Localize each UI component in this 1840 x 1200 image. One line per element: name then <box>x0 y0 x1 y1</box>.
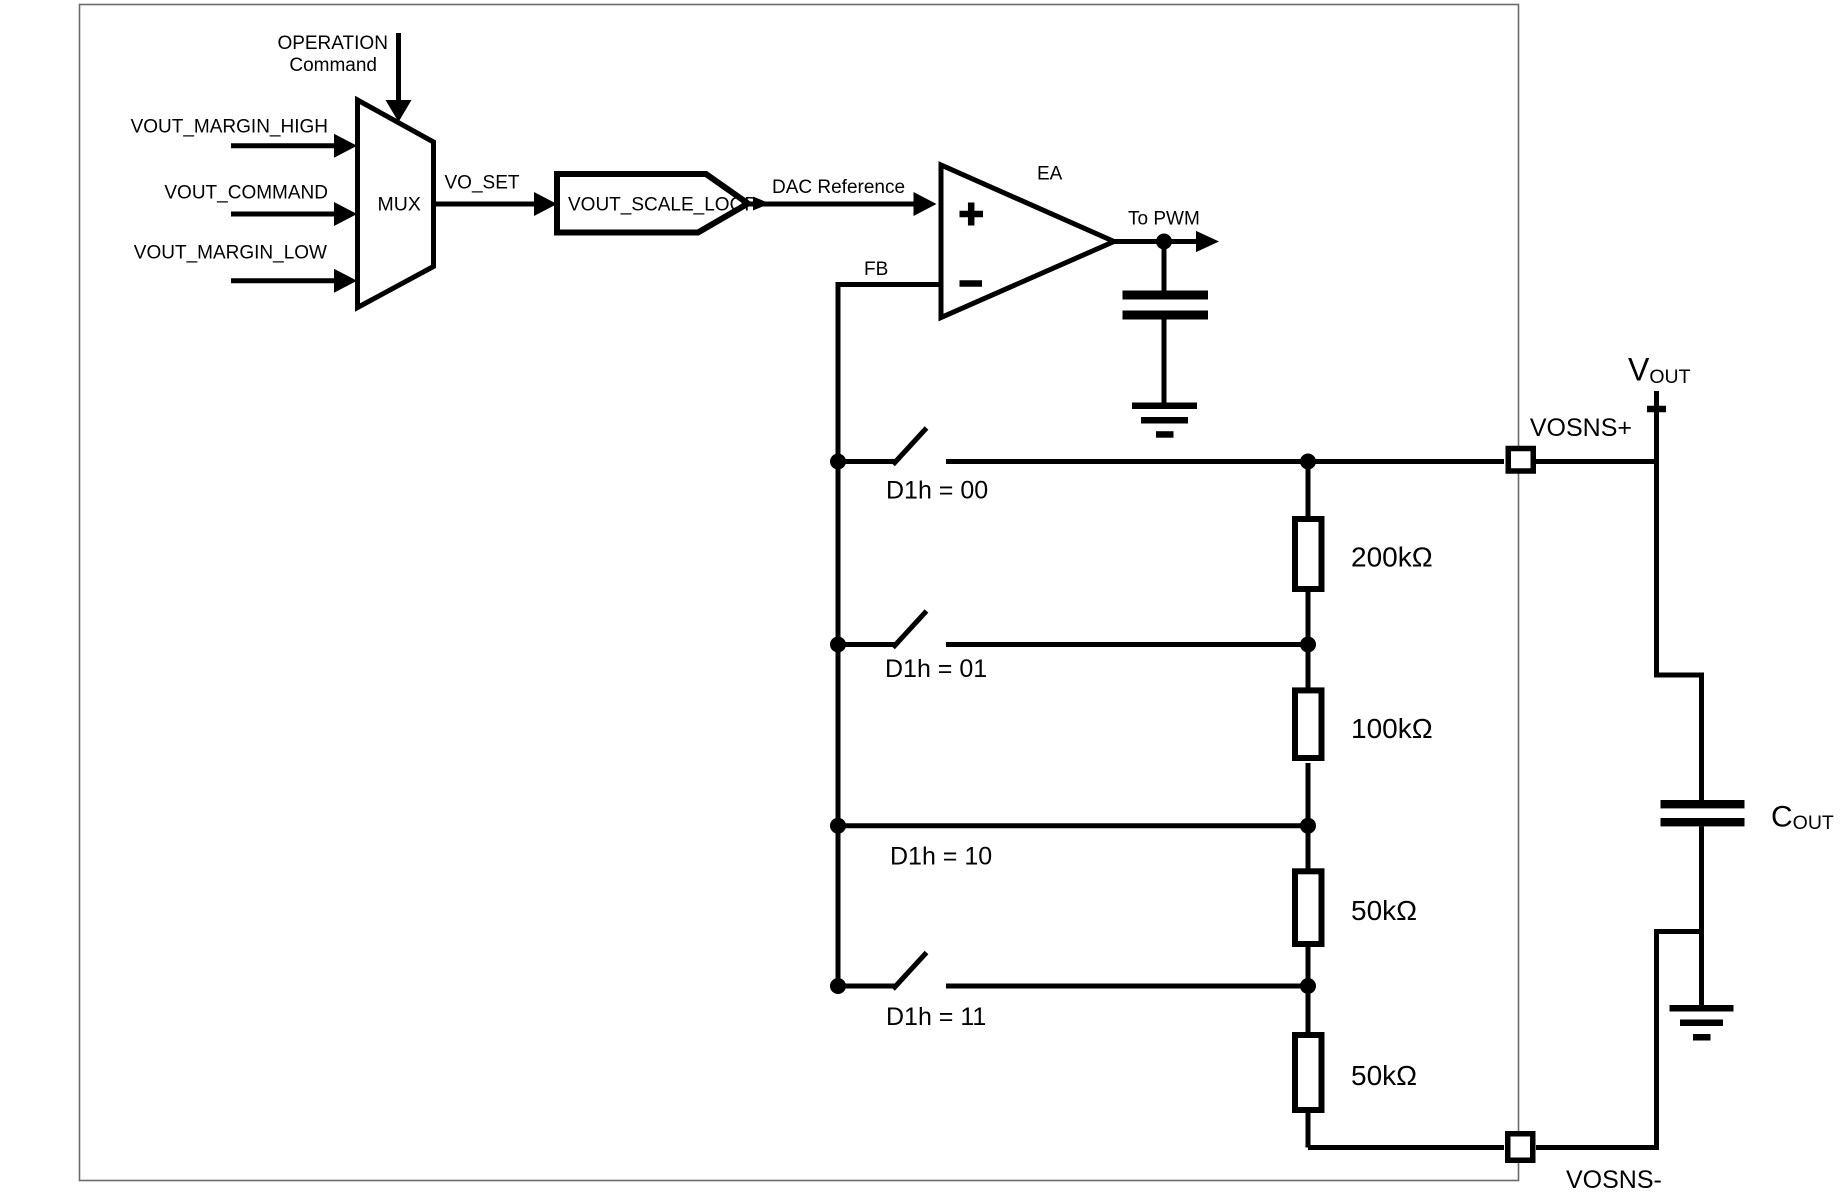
svg-text:COUT: COUT <box>1771 801 1834 835</box>
svg-text:VOSNS-: VOSNS- <box>1566 1166 1662 1194</box>
svg-text:50kΩ: 50kΩ <box>1351 895 1417 926</box>
svg-text:D1h = 11: D1h = 11 <box>886 1003 986 1031</box>
svg-text:D1h = 10: D1h = 10 <box>890 843 992 871</box>
svg-text:VOUT_SCALE_LOOP: VOUT_SCALE_LOOP <box>568 195 757 216</box>
svg-text:VOSNS+: VOSNS+ <box>1530 414 1632 442</box>
svg-text:VOUT_MARGIN_LOW: VOUT_MARGIN_LOW <box>134 242 327 263</box>
svg-text:VOUT: VOUT <box>1628 351 1691 388</box>
svg-text:VOUT_COMMAND: VOUT_COMMAND <box>164 183 328 204</box>
svg-text:FB: FB <box>864 259 888 280</box>
svg-text:100kΩ: 100kΩ <box>1351 713 1433 744</box>
svg-text:200kΩ: 200kΩ <box>1351 542 1433 573</box>
svg-text:Command: Command <box>289 55 377 76</box>
svg-text:DAC Reference: DAC Reference <box>772 177 905 198</box>
svg-text:VO_SET: VO_SET <box>445 173 520 194</box>
svg-text:VOUT_MARGIN_HIGH: VOUT_MARGIN_HIGH <box>131 116 328 137</box>
svg-text:OPERATION: OPERATION <box>277 33 388 54</box>
svg-text:EA: EA <box>1037 164 1063 185</box>
svg-text:D1h = 01: D1h = 01 <box>885 655 987 683</box>
svg-text:MUX: MUX <box>378 194 421 216</box>
svg-text:D1h = 00: D1h = 00 <box>886 477 988 505</box>
svg-text:50kΩ: 50kΩ <box>1351 1060 1417 1091</box>
svg-text:To PWM: To PWM <box>1128 209 1200 230</box>
